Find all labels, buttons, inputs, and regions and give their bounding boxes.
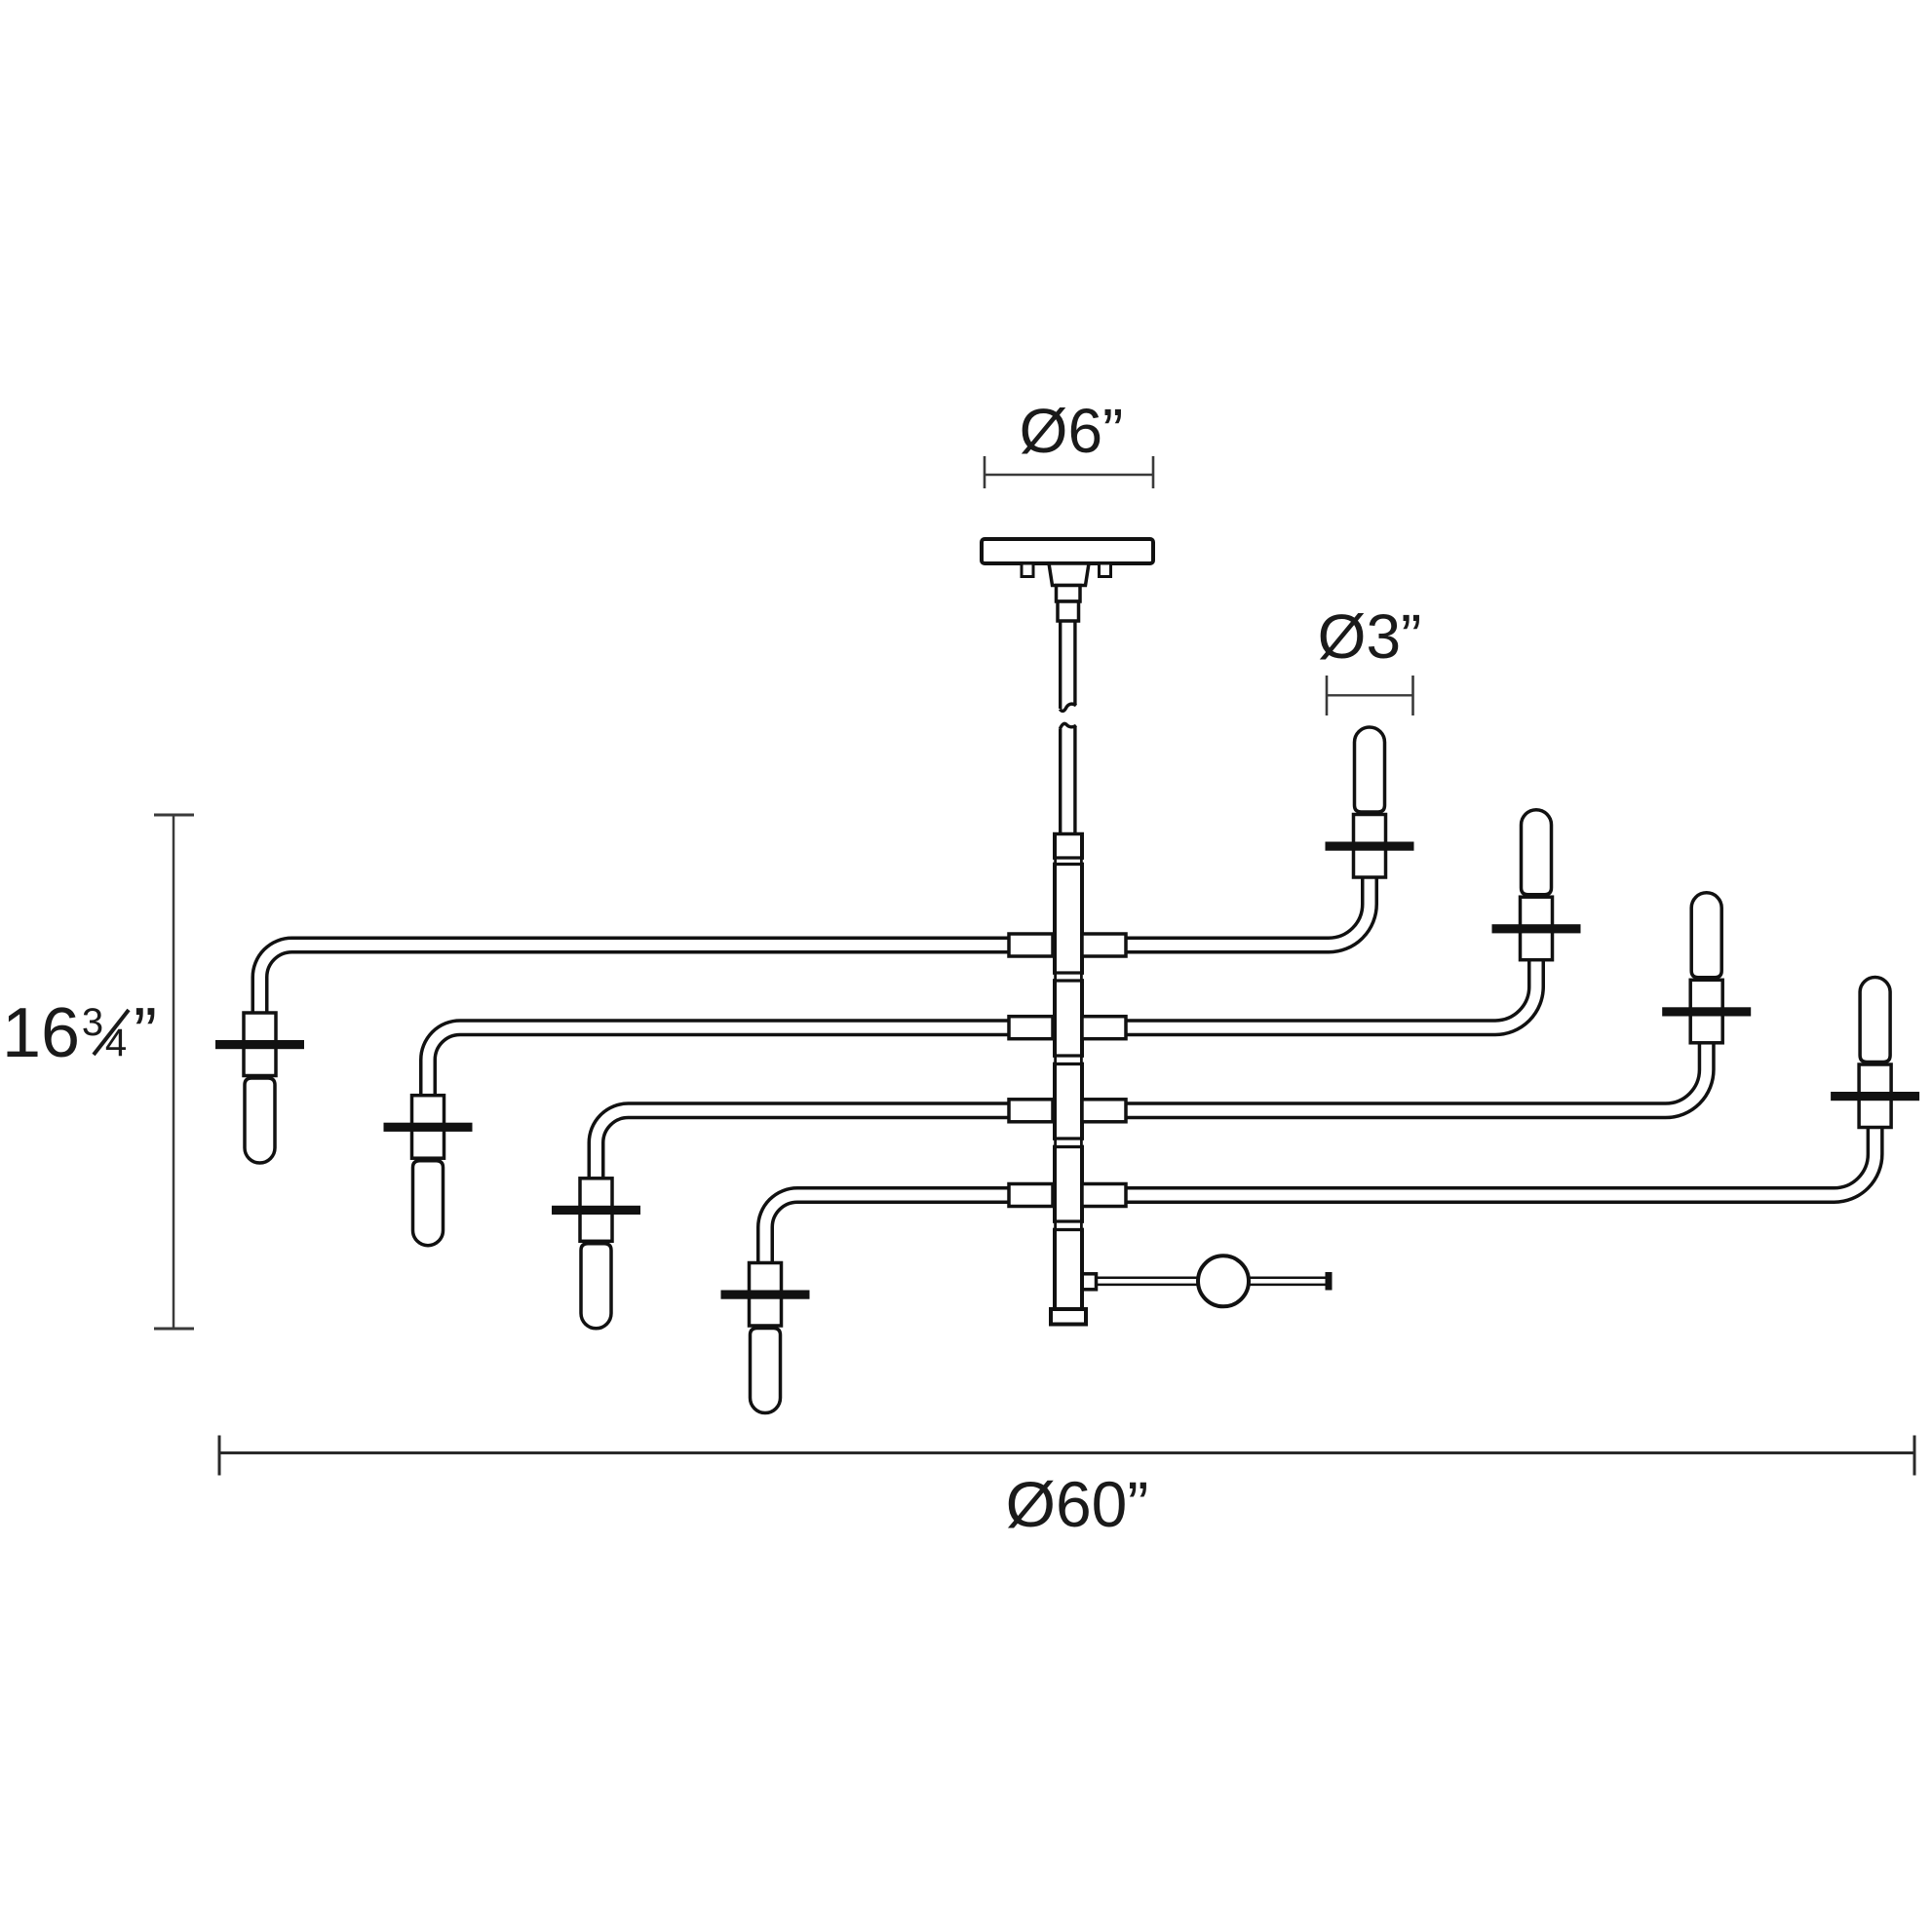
svg-text:Ø6”: Ø6” — [1020, 396, 1124, 466]
svg-text:16: 16 — [2, 994, 80, 1072]
svg-text:3: 3 — [82, 1001, 103, 1044]
svg-text:Ø60”: Ø60” — [1006, 1468, 1149, 1540]
svg-text:”: ” — [134, 994, 157, 1072]
svg-text:Ø3”: Ø3” — [1318, 601, 1422, 672]
